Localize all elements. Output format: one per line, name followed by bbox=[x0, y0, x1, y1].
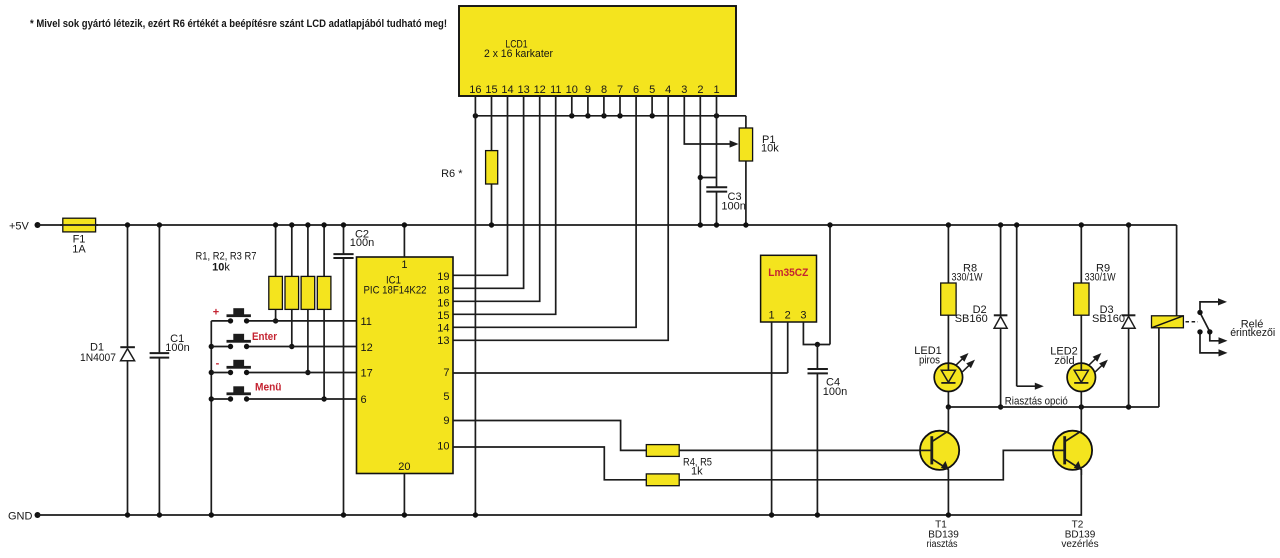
resistor R8 330/1W bbox=[941, 222, 983, 315]
svg-text:+5V: +5V bbox=[9, 221, 30, 233]
resistor R3 10k bbox=[301, 222, 315, 375]
svg-text:6: 6 bbox=[633, 84, 639, 96]
svg-text:9: 9 bbox=[443, 415, 449, 427]
svg-text:2: 2 bbox=[785, 309, 791, 321]
svg-text:13: 13 bbox=[517, 84, 529, 96]
svg-text:13: 13 bbox=[437, 335, 449, 347]
resistor R1 10k bbox=[269, 222, 283, 323]
svg-text:1N4007: 1N4007 bbox=[80, 352, 116, 364]
push button S3 (-) bbox=[211, 360, 356, 375]
svg-text:12: 12 bbox=[361, 342, 373, 354]
wire LCD pin 10 stub bbox=[571, 96, 573, 116]
resistor R4 1k bbox=[646, 445, 932, 457]
resistor R6 (on LCD pin 15) bbox=[441, 96, 498, 228]
svg-text:1: 1 bbox=[713, 84, 719, 96]
wire LCD pin 5 stub bbox=[651, 96, 653, 116]
svg-text:érintkezői: érintkezői bbox=[1230, 327, 1275, 339]
diode D1 1N4007 bbox=[80, 222, 135, 517]
wire LCD pin 13 to IC1 pin 18 bbox=[453, 96, 524, 288]
wire LCD pin 14 to IC1 pin 19 bbox=[453, 96, 508, 275]
wire IC1 pin 20 to GND bbox=[403, 474, 405, 516]
svg-text:16: 16 bbox=[469, 84, 481, 96]
svg-text:2: 2 bbox=[697, 84, 703, 96]
wire LCD pin 6 to IC1 pin 14 bbox=[453, 96, 636, 327]
wire Lm35CZ pin 2 stub bbox=[787, 322, 789, 373]
wire LCD pin 16 down to GND bbox=[474, 96, 476, 515]
svg-text:100n: 100n bbox=[823, 386, 847, 398]
sensor IC Lm35CZ bbox=[761, 255, 817, 322]
wire Lm35CZ pin 3 to +5V bbox=[803, 225, 830, 345]
resistor R2 10k bbox=[285, 222, 299, 349]
svg-text:10k: 10k bbox=[212, 262, 230, 274]
svg-text:2 x 16 karkater: 2 x 16 karkater bbox=[484, 48, 553, 60]
wire +5V rail bbox=[38, 224, 1177, 226]
svg-text:4: 4 bbox=[665, 84, 671, 96]
resistor R5 1k bbox=[646, 450, 1064, 485]
capacitor C1 100n bbox=[150, 222, 190, 517]
wire LCD pin 7 stub bbox=[619, 96, 621, 116]
relay coil K1 bbox=[1152, 225, 1184, 407]
svg-text:1A: 1A bbox=[72, 243, 86, 255]
push button S1 (+) bbox=[211, 308, 356, 323]
svg-text:SB160: SB160 bbox=[1092, 313, 1125, 325]
svg-text:11: 11 bbox=[361, 316, 372, 328]
svg-text:10: 10 bbox=[437, 440, 449, 452]
svg-text:12: 12 bbox=[534, 84, 546, 96]
svg-text:15: 15 bbox=[437, 310, 449, 322]
svg-text:16: 16 bbox=[437, 298, 449, 310]
svg-text:100n: 100n bbox=[165, 342, 189, 354]
LCD1 pin numbers 16..1 bbox=[469, 84, 719, 96]
wire IC1 pin 7 to Lm35CZ pin 2 bbox=[453, 372, 788, 374]
svg-text:Menü: Menü bbox=[255, 382, 282, 394]
LED LED2 zold (green) bbox=[1050, 315, 1108, 407]
svg-text:Riasztás opció: Riasztás opció bbox=[1005, 396, 1068, 408]
svg-text:3: 3 bbox=[681, 84, 687, 96]
svg-text:5: 5 bbox=[443, 391, 449, 403]
svg-text:GND: GND bbox=[8, 511, 33, 523]
IC LCD1 2x16 characters bbox=[459, 6, 736, 96]
wire IC1 pin 10 to R5 bbox=[453, 447, 646, 480]
wire LCD pin 3 to P1 wiper (arrow) bbox=[684, 96, 730, 144]
svg-text:5: 5 bbox=[649, 84, 655, 96]
svg-text:100n: 100n bbox=[721, 200, 745, 212]
svg-text:PIC 18F14K22: PIC 18F14K22 bbox=[364, 284, 427, 296]
svg-text:330/1W: 330/1W bbox=[1085, 272, 1116, 284]
svg-text:7: 7 bbox=[443, 367, 449, 379]
svg-text:1k: 1k bbox=[691, 465, 703, 477]
wire GND rail (bends up to T2 emitter) bbox=[38, 469, 1082, 515]
wire LCD pin 4 to IC1 pin 13 bbox=[453, 96, 668, 340]
svg-text:1: 1 bbox=[769, 309, 775, 321]
svg-text:100n: 100n bbox=[350, 237, 374, 249]
potentiometer P1 10k bbox=[739, 116, 779, 228]
svg-text:Enter: Enter bbox=[252, 331, 278, 343]
wire IC1 pin 1 to +5V bbox=[403, 225, 405, 257]
IC1 pin numbers right side bbox=[437, 271, 449, 452]
svg-text:19: 19 bbox=[437, 271, 449, 283]
diode D2 SB160 bbox=[955, 222, 1008, 409]
wire LCD pin 9 stub bbox=[587, 96, 589, 116]
capacitor C2 100n bbox=[333, 222, 374, 517]
wire LCD bus line (pins 16,10,9,8,7,5,1 common, to P1 top) bbox=[475, 115, 746, 117]
svg-text:+: + bbox=[213, 307, 219, 319]
capacitor C4 100n bbox=[808, 345, 848, 518]
wire button common left vertical to GND bbox=[210, 321, 212, 515]
svg-text:14: 14 bbox=[437, 323, 449, 335]
svg-text:11: 11 bbox=[550, 84, 561, 96]
wire LCD pin 8 stub bbox=[603, 96, 605, 116]
wire collector line T1/T2 to relay bbox=[948, 406, 1159, 408]
capacitor C3 100n (on LCD pin 1 line) bbox=[698, 96, 746, 228]
svg-text:3: 3 bbox=[800, 309, 806, 321]
svg-text:20: 20 bbox=[398, 461, 410, 473]
wire IC1 pin 9 to R4 bbox=[453, 421, 646, 451]
svg-text:9: 9 bbox=[585, 84, 591, 96]
svg-text:7: 7 bbox=[617, 84, 623, 96]
svg-text:vezérlés: vezérlés bbox=[1061, 539, 1098, 550]
svg-text:riasztás: riasztás bbox=[927, 539, 958, 550]
svg-text:R6 *: R6 * bbox=[441, 168, 463, 180]
svg-text:1: 1 bbox=[401, 259, 407, 271]
transistor T1 BD139 bbox=[920, 407, 959, 550]
svg-text:18: 18 bbox=[437, 284, 449, 296]
svg-text:17: 17 bbox=[361, 368, 373, 380]
svg-text:14: 14 bbox=[501, 84, 513, 96]
svg-text:330/1W: 330/1W bbox=[952, 272, 983, 284]
resistor R9 330/1W bbox=[1074, 222, 1116, 315]
LED LED1 piros (red) bbox=[914, 315, 975, 407]
svg-text:15: 15 bbox=[485, 84, 497, 96]
svg-text:zöld: zöld bbox=[1054, 355, 1074, 367]
IC1 pin numbers left side bbox=[361, 316, 373, 406]
push button S2 (Enter) bbox=[211, 334, 356, 349]
svg-text:SB160: SB160 bbox=[955, 313, 988, 325]
diode D3 SB160 bbox=[1092, 222, 1135, 407]
resistor R7 10k bbox=[317, 222, 331, 401]
wire LCD pin 12 to IC1 pin 16 bbox=[453, 96, 540, 301]
fuse F1 bbox=[60, 218, 98, 255]
op-amp IC1 PIC 18F14K22 (MCU) bbox=[357, 257, 454, 474]
svg-text:Lm35CZ: Lm35CZ bbox=[768, 267, 808, 279]
wire Riasztas opcio branch with arrow bbox=[1005, 222, 1068, 407]
wire LCD pin 2 to +5V bbox=[699, 96, 701, 225]
relay contacts (Rele erintkezoi) bbox=[1186, 298, 1276, 356]
svg-text:10k: 10k bbox=[761, 143, 779, 155]
svg-text:8: 8 bbox=[601, 84, 607, 96]
svg-text:6: 6 bbox=[361, 394, 367, 406]
svg-text:* Mivel sok gyártó létezik, ez: * Mivel sok gyártó létezik, ezért R6 ért… bbox=[30, 18, 447, 30]
svg-text:piros: piros bbox=[919, 355, 940, 367]
wire LCD pin 11 to IC1 pin 15 bbox=[453, 96, 556, 314]
svg-text:-: - bbox=[216, 358, 220, 370]
push button S4 (Menu) bbox=[211, 386, 356, 401]
wire Lm35CZ pin 1 to GND bbox=[771, 322, 773, 515]
svg-text:10: 10 bbox=[566, 84, 578, 96]
transistor T2 BD139 bbox=[1053, 407, 1099, 550]
